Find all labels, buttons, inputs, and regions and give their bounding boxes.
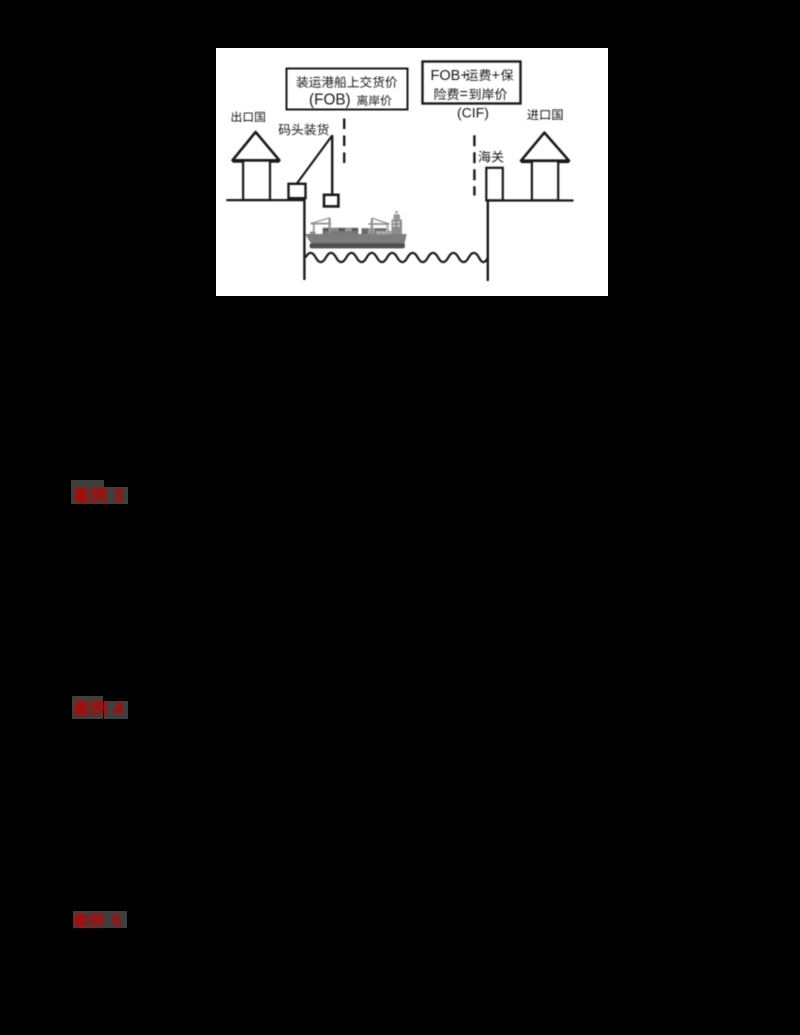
right ground line (486, 199, 574, 201)
label 进口国 (import country) (527, 109, 538, 120)
svg-text:3: 3 (113, 485, 123, 506)
white diagram panel (216, 48, 608, 296)
crane boom (diagonal) (297, 136, 333, 185)
cargo ship (305, 211, 407, 249)
customs building rectangle (486, 168, 503, 201)
FOB price label box (287, 69, 408, 110)
red field shading boxes for label 案例 4 (72, 696, 103, 719)
red label 案例 4 (72, 696, 136, 723)
svg-text:+: + (492, 68, 500, 84)
FOB dashed reference line (343, 119, 345, 165)
red label 案例 3 (72, 483, 136, 510)
CIF price label box (423, 62, 521, 104)
label 出口国 (export country) (232, 111, 241, 122)
CIF box line2: 险费=到岸价 (435, 88, 447, 100)
red field shading boxes for label 案例 3 (71, 480, 104, 504)
svg-text:(FOB): (FOB) (309, 92, 351, 109)
crane mast (vertical) (331, 135, 333, 195)
wavy water line (306, 253, 489, 262)
svg-text:5: 5 (112, 913, 121, 931)
crane trolley box on pier (289, 184, 306, 198)
svg-text:4: 4 (113, 698, 124, 719)
label 码头装货 (dock loading) (279, 124, 291, 135)
red label 案例 5 (72, 909, 133, 934)
left pier vertical line (303, 200, 305, 280)
right house (import country building) (521, 133, 569, 161)
label 海关 (customs) (479, 151, 491, 163)
red field shading box for label 案例 5 (73, 911, 128, 928)
svg-text:(CIF): (CIF) (457, 104, 489, 120)
right pier vertical line (487, 201, 489, 282)
svg-text:=: = (460, 87, 468, 103)
FOB box line1: 装运港船上交货价 (296, 76, 308, 88)
CIF dashed reference line (customs boundary) (473, 135, 475, 195)
svg-text:FOB+: FOB+ (431, 68, 469, 84)
crane hanging cargo box (324, 195, 338, 207)
left ground line (226, 199, 305, 201)
left house (export country building) (233, 132, 280, 160)
